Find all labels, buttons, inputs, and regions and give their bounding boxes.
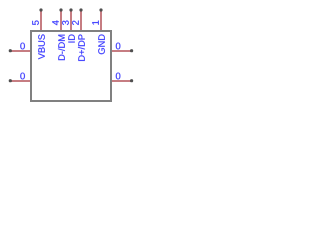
shield pin 0 lower-right number label "0" [116,73,121,80]
pin 2 endpoint dot [79,8,82,11]
pin 1 name GND [98,34,105,54]
pin 1 number label "1" [92,21,98,25]
shield pin 0 upper-left wire [11,50,30,52]
shield pin 0 lower-left endpoint dot [9,79,12,82]
shield pin 0 upper-right endpoint dot [130,49,133,52]
shield pin 0 lower-right wire [112,80,131,82]
pin 4 number label "4" [52,20,58,25]
pin 4 D-/DM wire [60,11,62,31]
pin 3 ID wire [70,11,72,31]
pin 2 name D+/DP [78,34,85,60]
shield pin 0 upper-left endpoint dot [9,49,12,52]
pin 1 endpoint dot [99,8,102,11]
pin 3 number label "3" [62,21,69,25]
pin 4 name D-/DM [58,35,65,60]
shield pin 0 lower-right endpoint dot [130,79,133,82]
pin 5 number label "5" [32,21,39,25]
shield pin 0 upper-right number label "0" [116,43,121,50]
shield pin 0 lower-left wire [11,80,30,82]
pin 2 number label "2" [72,21,79,25]
pin 1 GND wire [100,11,102,31]
pin 3 endpoint dot [69,8,72,11]
shield pin 0 lower-left number label "0" [20,73,25,80]
pin 3 name ID [68,34,74,42]
shield pin 0 upper-left number label "0" [20,43,25,50]
pin 4 endpoint dot [59,8,62,11]
pin 5 endpoint dot [39,8,42,11]
pin 5 name VBUS [38,34,45,59]
pin 2 D+/DP wire [80,11,82,31]
background [0,0,142,111]
component body J1 (USB connector outline) [31,31,111,101]
shield pin 0 upper-right wire [112,50,131,52]
pin 5 VBUS wire [40,11,42,31]
